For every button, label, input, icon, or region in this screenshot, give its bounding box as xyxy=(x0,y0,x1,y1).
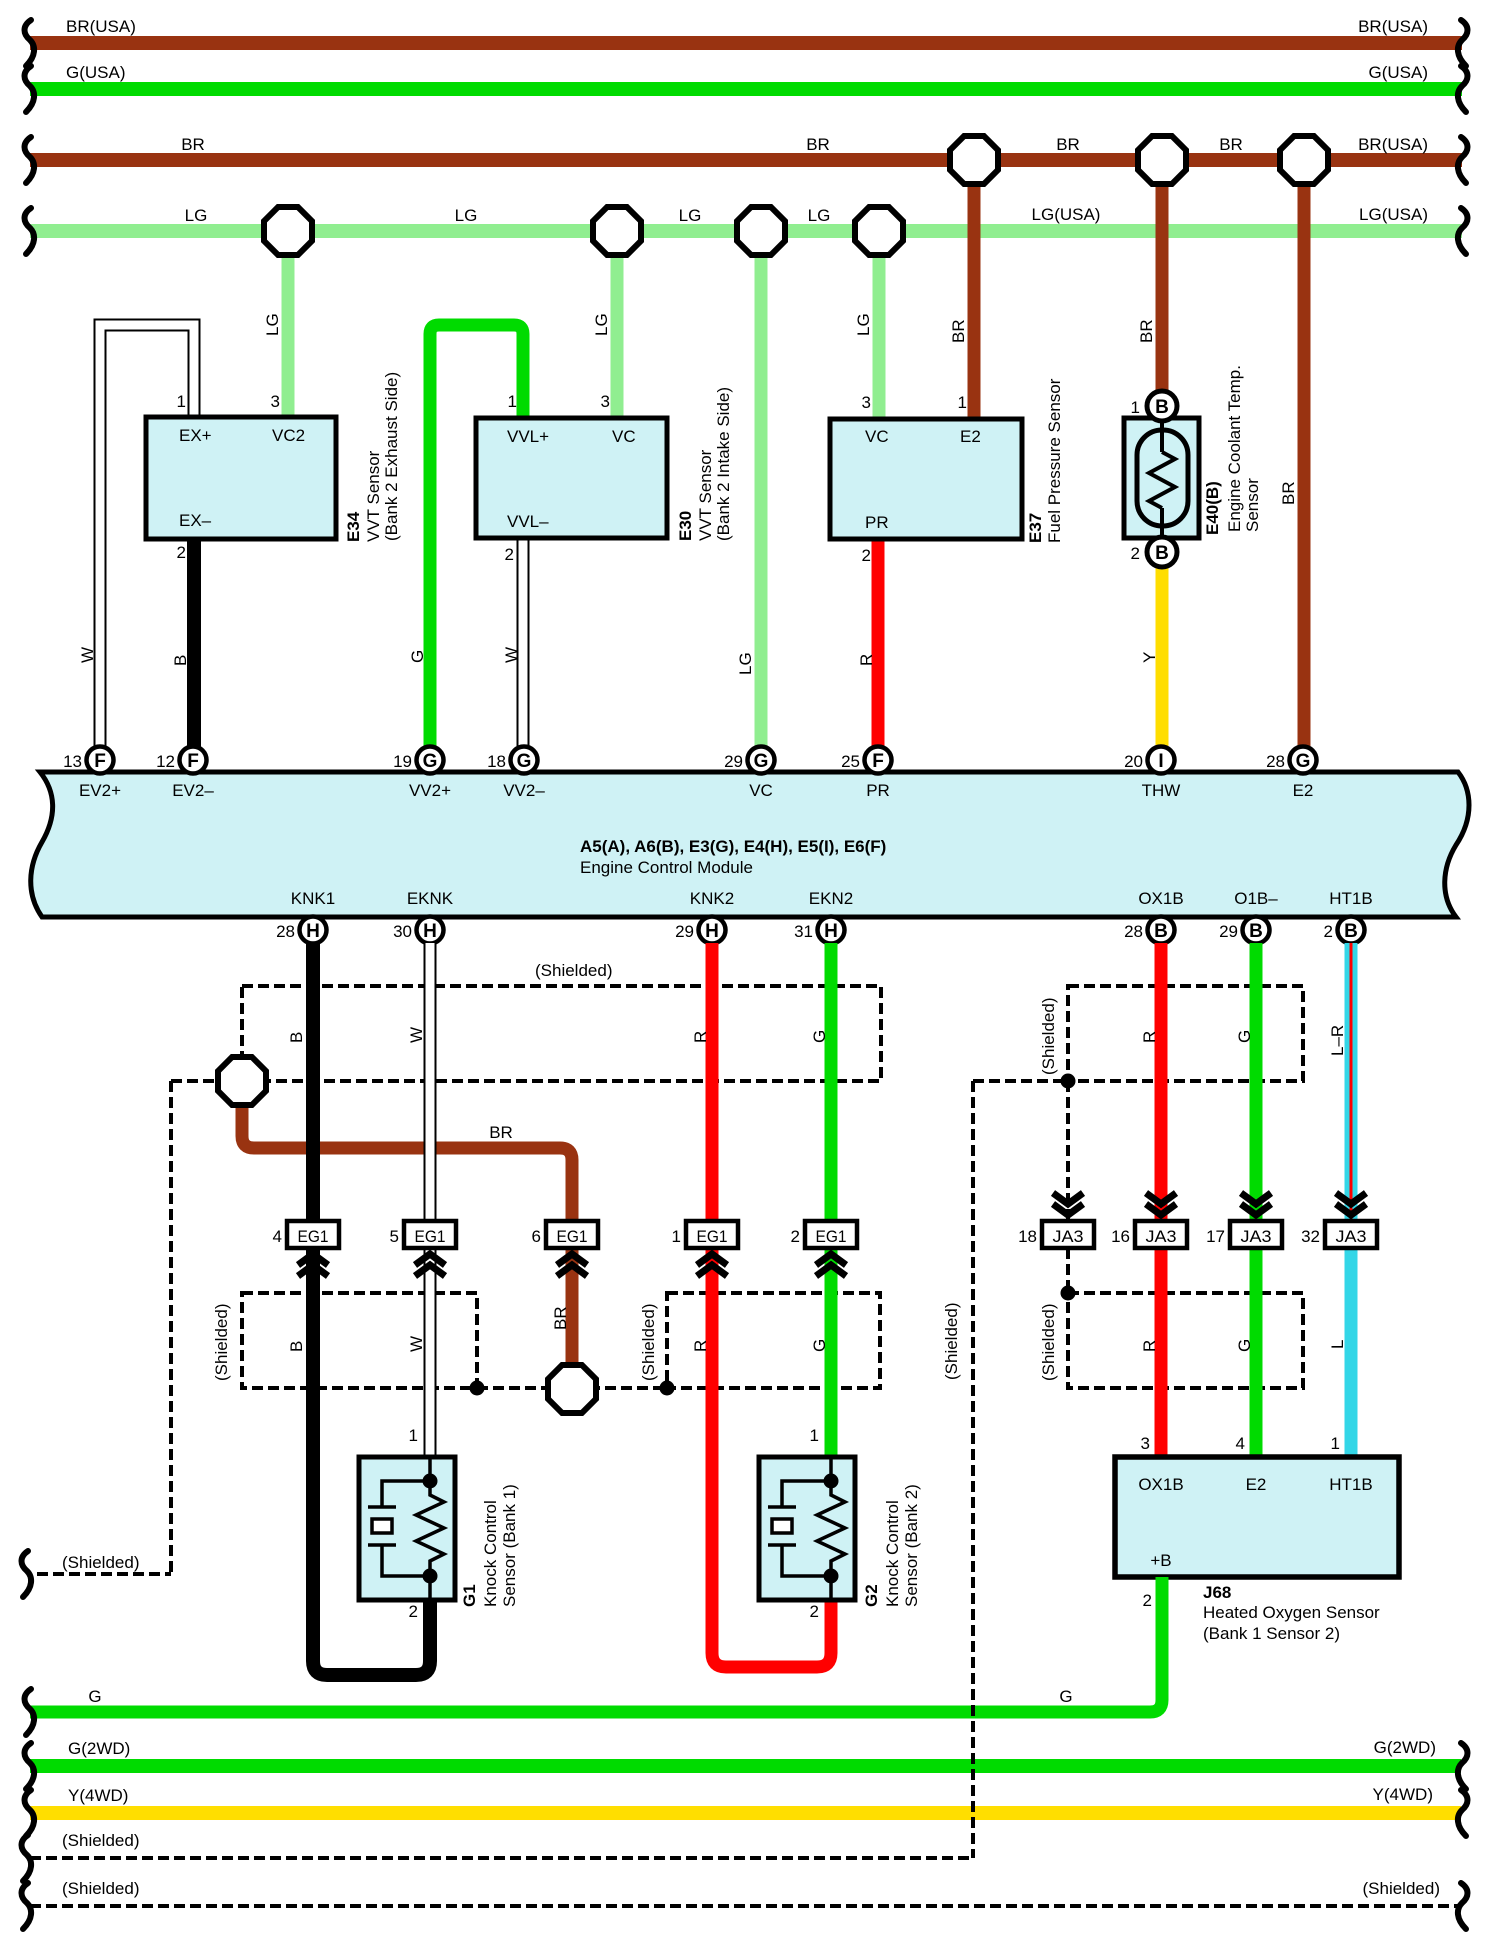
svg-text:Engine Control Module: Engine Control Module xyxy=(580,858,753,877)
chevron down 2 at JA3-18 xyxy=(1053,1204,1083,1215)
svg-text:H: H xyxy=(423,921,437,942)
svg-text:BR: BR xyxy=(181,135,205,154)
G1 internal lead bottom xyxy=(428,1576,432,1600)
svg-text:G1: G1 xyxy=(460,1584,479,1607)
wire B E34 EX- to ECM EV2- xyxy=(187,539,201,748)
svg-text:BR(USA): BR(USA) xyxy=(1358,17,1428,36)
svg-text:G(2WD): G(2WD) xyxy=(1374,1738,1436,1757)
svg-text:G: G xyxy=(810,1030,829,1043)
break symbol left at y=1858 xyxy=(22,1835,32,1881)
thermistor lead bottom E40(B) xyxy=(1160,508,1164,538)
connector EG1-5 box xyxy=(404,1221,456,1248)
svg-text:EX–: EX– xyxy=(179,511,212,530)
svg-text:30: 30 xyxy=(393,922,412,941)
svg-text:2: 2 xyxy=(409,1602,418,1621)
svg-text:VVL+: VVL+ xyxy=(507,427,549,446)
svg-text:Sensor (Bank 1): Sensor (Bank 1) xyxy=(500,1484,519,1607)
svg-text:2: 2 xyxy=(862,546,871,565)
svg-text:BR: BR xyxy=(806,135,830,154)
svg-text:1: 1 xyxy=(1331,1434,1340,1453)
wire Y E40B to ECM THW xyxy=(1156,566,1169,748)
chevron up 2 at EG1-5 xyxy=(415,1265,445,1276)
svg-text:LG: LG xyxy=(455,206,478,225)
wire W E30 VVL- (white core) xyxy=(519,539,528,748)
svg-text:3: 3 xyxy=(271,392,280,411)
component J68 Heated Oxygen Sensor box xyxy=(1115,1457,1399,1577)
wire R E37 PR to ECM PR xyxy=(872,539,885,748)
svg-text:1: 1 xyxy=(508,392,517,411)
svg-text:3: 3 xyxy=(1141,1434,1150,1453)
svg-text:Knock Control: Knock Control xyxy=(883,1500,902,1607)
svg-text:EG1: EG1 xyxy=(415,1227,446,1246)
svg-text:1: 1 xyxy=(177,392,186,411)
wire LG bus xyxy=(30,224,1462,238)
svg-text:W: W xyxy=(78,647,97,663)
svg-text:Sensor (Bank 2): Sensor (Bank 2) xyxy=(902,1484,921,1607)
svg-text:W: W xyxy=(407,1027,426,1043)
svg-text:(Shielded): (Shielded) xyxy=(942,1303,961,1381)
break symbol left at y=1906 xyxy=(22,1883,32,1929)
ECM bottom pin 28H KNK1 circle xyxy=(300,917,327,944)
svg-text:OX1B: OX1B xyxy=(1138,1475,1183,1494)
svg-text:18: 18 xyxy=(1018,1227,1037,1246)
svg-text:+B: +B xyxy=(1150,1551,1171,1570)
svg-text:Fuel Pressure Sensor: Fuel Pressure Sensor xyxy=(1045,378,1064,543)
svg-text:E34: E34 xyxy=(344,511,363,542)
svg-text:E2: E2 xyxy=(1293,781,1314,800)
svg-text:20: 20 xyxy=(1124,752,1143,771)
G1 piezo crystal square xyxy=(372,1519,392,1533)
wire G(2WD) bus xyxy=(30,1759,1461,1773)
ECM top pin 18G VV2&#8211; circle xyxy=(511,747,538,774)
octagon BR junction 1 xyxy=(950,136,998,184)
svg-text:G: G xyxy=(810,1339,829,1352)
component E30 VVT Sensor box xyxy=(476,418,667,538)
svg-text:PR: PR xyxy=(865,513,889,532)
G1 piezo plate bottom xyxy=(368,1543,396,1547)
chevron down 2 at JA3-17 xyxy=(1241,1204,1271,1215)
svg-text:THW: THW xyxy=(1142,781,1181,800)
wire LG drop to E34 VC2 xyxy=(282,231,295,417)
svg-text:E40(B): E40(B) xyxy=(1203,481,1222,535)
octagon BR junction 3 xyxy=(1280,136,1328,184)
svg-text:2: 2 xyxy=(505,545,514,564)
dashed shielded bus row1 xyxy=(30,1856,973,1860)
svg-text:G: G xyxy=(408,650,427,663)
svg-text:Heated Oxygen Sensor: Heated Oxygen Sensor xyxy=(1203,1603,1380,1622)
junction dot SB3 corner xyxy=(470,1381,485,1396)
shield box upper-left xyxy=(242,986,881,1081)
svg-text:EG1: EG1 xyxy=(697,1227,728,1246)
svg-text:J68: J68 xyxy=(1203,1583,1231,1602)
svg-text:2: 2 xyxy=(1131,544,1140,563)
svg-text:2: 2 xyxy=(810,1602,819,1621)
svg-text:G2: G2 xyxy=(862,1584,881,1607)
svg-text:JA3: JA3 xyxy=(1241,1227,1272,1246)
svg-text:29: 29 xyxy=(1219,922,1238,941)
ECM top pin 28G E2 circle xyxy=(1290,747,1317,774)
svg-text:3: 3 xyxy=(601,392,610,411)
component G2 Knock Control Sensor box xyxy=(759,1457,855,1600)
G2 internal node dot top xyxy=(824,1474,839,1489)
svg-text:LG(USA): LG(USA) xyxy=(1359,205,1428,224)
wire L JA3-32 to J68 HT1B xyxy=(1345,1248,1358,1457)
svg-text:PR: PR xyxy=(866,781,890,800)
svg-text:5: 5 xyxy=(390,1227,399,1246)
connector EG1-2 box xyxy=(805,1221,857,1248)
wire R OX1B to J68 xyxy=(1155,943,1168,1457)
svg-text:EX+: EX+ xyxy=(179,426,212,445)
G2 internal lead bottom xyxy=(829,1576,833,1600)
svg-text:B: B xyxy=(1155,543,1169,564)
svg-text:(Shielded): (Shielded) xyxy=(212,1304,231,1382)
G1 piezo plate top xyxy=(368,1505,396,1509)
ECM bottom pin 30H EKNK circle xyxy=(417,917,444,944)
dashed vertical left xyxy=(169,1081,173,1574)
svg-text:JA3: JA3 xyxy=(1336,1227,1367,1246)
svg-text:(Shielded): (Shielded) xyxy=(62,1831,140,1850)
thermistor stadium of E40(B) xyxy=(1137,430,1188,526)
break symbol left at y=1766 xyxy=(25,1743,35,1789)
svg-text:28: 28 xyxy=(1266,752,1285,771)
break symbol left at y=1712 xyxy=(25,1689,35,1735)
junction dot SB4 corner xyxy=(660,1381,675,1396)
svg-text:31: 31 xyxy=(794,922,813,941)
svg-text:EKN2: EKN2 xyxy=(809,889,853,908)
ECM top pin 19G VV2+ circle xyxy=(417,747,444,774)
octagon shield junction 2 xyxy=(548,1365,596,1413)
svg-text:LG: LG xyxy=(854,313,873,336)
svg-text:Y: Y xyxy=(1140,652,1159,663)
component G1 Knock Control Sensor box xyxy=(359,1457,455,1600)
svg-text:VVL–: VVL– xyxy=(507,512,549,531)
svg-text:W: W xyxy=(407,1336,426,1352)
svg-text:LG: LG xyxy=(736,652,755,675)
break symbol right at y=160 xyxy=(1458,137,1468,183)
svg-text:28: 28 xyxy=(276,922,295,941)
svg-text:25: 25 xyxy=(841,752,860,771)
svg-text:VC2: VC2 xyxy=(272,426,305,445)
svg-text:VC: VC xyxy=(865,427,889,446)
svg-text:1: 1 xyxy=(672,1227,681,1246)
connector EG1-6 box xyxy=(546,1221,598,1248)
svg-text:13: 13 xyxy=(63,752,82,771)
chevron up 2 at EG1-4 xyxy=(298,1265,328,1276)
ECM bottom pin 29H KNK2 circle xyxy=(699,917,726,944)
wire R KNK2 loop to G2 pin2 xyxy=(712,943,831,1667)
svg-text:R: R xyxy=(857,654,876,666)
svg-text:BR: BR xyxy=(949,319,968,343)
svg-text:1: 1 xyxy=(1131,398,1140,417)
svg-text:VVT Sensor: VVT Sensor xyxy=(364,450,383,542)
svg-text:E2: E2 xyxy=(1246,1475,1267,1494)
chevron down 1 at JA3-16 xyxy=(1146,1193,1176,1204)
svg-text:R: R xyxy=(1140,1340,1159,1352)
wire B KNK1 loop to G1 pin2 xyxy=(313,943,430,1675)
G1 internal node dot top xyxy=(423,1474,438,1489)
svg-text:3: 3 xyxy=(862,393,871,412)
svg-text:B: B xyxy=(287,1032,306,1043)
wire L-R HT1B red stripe xyxy=(1350,943,1353,1221)
svg-text:EG1: EG1 xyxy=(557,1227,588,1246)
svg-text:LG(USA): LG(USA) xyxy=(1032,205,1101,224)
chevron up 2 at EG1-6 xyxy=(557,1265,587,1276)
dashed shielded bus row2 xyxy=(30,1904,1460,1908)
svg-text:B: B xyxy=(1344,921,1358,942)
G1 internal node dot bottom xyxy=(423,1569,438,1584)
ECM bottom pin 29B O1B&#8211; circle xyxy=(1243,917,1270,944)
chevron down 1 at JA3-18 xyxy=(1053,1193,1083,1204)
break symbol left at y=1813 xyxy=(25,1790,35,1836)
svg-text:KNK2: KNK2 xyxy=(690,889,734,908)
chevron down 1 at JA3-32 xyxy=(1336,1193,1366,1204)
G2 internal resistor zigzag xyxy=(817,1481,845,1576)
svg-text:R: R xyxy=(691,1340,710,1352)
svg-text:(Bank 1 Sensor 2): (Bank 1 Sensor 2) xyxy=(1203,1624,1340,1643)
shield box lower-left xyxy=(242,1293,477,1388)
chevron down 2 at JA3-32 xyxy=(1336,1204,1366,1215)
svg-text:18: 18 xyxy=(487,752,506,771)
svg-text:R: R xyxy=(691,1031,710,1043)
wire W loop E34 (white core) xyxy=(100,325,194,748)
svg-text:2: 2 xyxy=(791,1227,800,1246)
svg-text:12: 12 xyxy=(156,752,175,771)
wire W EKNK to G1 pin1 (white core) xyxy=(426,943,435,1457)
svg-text:2: 2 xyxy=(1143,1591,1152,1610)
octagon LG junction 3 xyxy=(737,207,785,255)
thermistor lead top E40(B) xyxy=(1160,418,1164,452)
svg-text:(Bank 2 Intake Side): (Bank 2 Intake Side) xyxy=(714,387,733,541)
wire G EKN2 to G2 pin1 xyxy=(825,943,838,1457)
svg-text:G(2WD): G(2WD) xyxy=(68,1739,130,1758)
svg-text:BR(USA): BR(USA) xyxy=(66,17,136,36)
svg-text:29: 29 xyxy=(724,752,743,771)
svg-text:BR(USA): BR(USA) xyxy=(1358,135,1428,154)
svg-text:LG: LG xyxy=(592,313,611,336)
G2 piezo branch top xyxy=(782,1481,831,1507)
svg-text:1: 1 xyxy=(409,1426,418,1445)
wire Y(4WD) bus xyxy=(30,1806,1461,1820)
svg-text:H: H xyxy=(306,921,320,942)
chevron up 1 at EG1-5 xyxy=(415,1254,445,1265)
break symbol right at y=43 xyxy=(1458,20,1468,66)
ECM top pin 29G VC circle xyxy=(748,747,775,774)
component E40(B) box xyxy=(1124,418,1199,538)
ECM bottom pin 31H EKN2 circle xyxy=(818,917,845,944)
svg-text:G: G xyxy=(1059,1687,1072,1706)
wire BR shield drain to EG1-6 xyxy=(242,1107,572,1363)
chevron down 2 at JA3-16 xyxy=(1146,1204,1176,1215)
svg-text:EV2+: EV2+ xyxy=(79,781,121,800)
ECM bottom pin 2B HT1B circle xyxy=(1338,917,1365,944)
break symbol right at y=231 xyxy=(1458,208,1468,254)
svg-text:G(USA): G(USA) xyxy=(66,63,126,82)
svg-text:F: F xyxy=(94,751,106,772)
svg-text:BR: BR xyxy=(1219,135,1243,154)
G1 internal lead top xyxy=(428,1457,432,1481)
svg-text:VV2–: VV2– xyxy=(503,781,545,800)
junction dot SB2 corner xyxy=(1061,1074,1076,1089)
svg-text:H: H xyxy=(824,921,838,942)
connector EG1-1 box xyxy=(686,1221,738,1248)
chevron up 1 at EG1-6 xyxy=(557,1254,587,1265)
dashed stub from octagon1 to left xyxy=(171,1079,220,1083)
svg-text:I: I xyxy=(1158,751,1163,772)
svg-text:VC: VC xyxy=(612,427,636,446)
wire BR drop to E40B xyxy=(1156,160,1169,392)
svg-text:R: R xyxy=(1140,1031,1159,1043)
svg-text:O1B–: O1B– xyxy=(1234,889,1278,908)
G2 internal node dot bottom xyxy=(824,1569,839,1584)
svg-text:(Shielded): (Shielded) xyxy=(62,1553,140,1572)
chevron up 1 at EG1-1 xyxy=(697,1254,727,1265)
break symbol left at y=89 xyxy=(25,66,35,112)
wire L-R HT1B to JA3-32 (cyan) xyxy=(1345,943,1358,1221)
svg-text:OX1B: OX1B xyxy=(1138,889,1183,908)
octagon LG junction 2 xyxy=(593,207,641,255)
svg-text:EG1: EG1 xyxy=(816,1227,847,1246)
svg-text:H: H xyxy=(705,921,719,942)
svg-text:BR: BR xyxy=(489,1123,513,1142)
break symbol left at y=160 xyxy=(25,137,35,183)
wire BR bus xyxy=(30,153,1462,167)
svg-text:W: W xyxy=(502,647,521,663)
connector JA3-16 box xyxy=(1135,1221,1187,1248)
svg-text:G: G xyxy=(88,1687,101,1706)
octagon shield junction 1 xyxy=(218,1057,266,1105)
svg-text:G: G xyxy=(1296,751,1311,772)
wire LG drop to E30 VC xyxy=(611,231,624,418)
wire G O1B- to J68 E2 xyxy=(1250,943,1263,1457)
junction dot SB5 corner xyxy=(1061,1286,1076,1301)
svg-text:JA3: JA3 xyxy=(1146,1227,1177,1246)
connector JA3-17 box xyxy=(1230,1221,1282,1248)
shield box upper-right xyxy=(1068,986,1303,1081)
svg-text:1: 1 xyxy=(958,393,967,412)
svg-text:E37: E37 xyxy=(1026,513,1045,543)
svg-text:E30: E30 xyxy=(676,511,695,541)
svg-text:(Shielded): (Shielded) xyxy=(62,1879,140,1898)
svg-text:BR: BR xyxy=(1056,135,1080,154)
G2 piezo plate top xyxy=(768,1505,796,1509)
svg-text:(Shielded): (Shielded) xyxy=(639,1304,658,1382)
ECM top pin 13F EV2+ circle xyxy=(87,747,114,774)
G2 internal lead top xyxy=(829,1457,833,1481)
svg-text:A5(A), A6(B), E3(G), E4(H), E5: A5(A), A6(B), E3(G), E4(H), E5(I), E6(F) xyxy=(580,837,886,856)
svg-text:G(USA): G(USA) xyxy=(1369,63,1429,82)
svg-text:EV2–: EV2– xyxy=(172,781,214,800)
svg-text:L: L xyxy=(1328,1340,1347,1349)
svg-text:4: 4 xyxy=(273,1227,282,1246)
G1 piezo branch bottom xyxy=(382,1545,430,1576)
chevron down 1 at JA3-17 xyxy=(1241,1193,1271,1204)
wire BR drop to ECM E2 xyxy=(1298,160,1311,748)
svg-text:BR: BR xyxy=(551,1306,570,1330)
dashed link SB2 to vertical xyxy=(973,1079,1068,1083)
svg-text:17: 17 xyxy=(1206,1227,1225,1246)
wire LG drop to ECM VC xyxy=(755,231,768,748)
svg-text:L–R: L–R xyxy=(1328,1025,1347,1056)
wire W EKNK to G1 pin1 (outline) xyxy=(424,943,437,1457)
G2 piezo plate bottom xyxy=(768,1543,796,1547)
svg-text:B: B xyxy=(287,1341,306,1352)
G1 internal resistor zigzag xyxy=(416,1481,444,1576)
svg-text:1: 1 xyxy=(810,1426,819,1445)
connector JA3-32 box xyxy=(1325,1221,1377,1248)
svg-text:2: 2 xyxy=(177,543,186,562)
wire W loop E34 EX+ to ECM EV2+ (outline) xyxy=(100,325,194,748)
octagon LG junction 1 xyxy=(264,207,312,255)
octagon LG junction 4 xyxy=(855,207,903,255)
svg-text:Engine Coolant Temp.: Engine Coolant Temp. xyxy=(1225,365,1244,532)
connector circle B bottom of E40(B) xyxy=(1147,537,1177,567)
ECM top pin 12F EV2&#8211; circle xyxy=(180,747,207,774)
break symbol right at y=89 xyxy=(1458,66,1468,112)
connector EG1-4 box xyxy=(287,1221,339,1248)
thermistor zigzag E40(B) xyxy=(1149,452,1175,508)
wire G bus bottom with turn to J68 +B xyxy=(30,1577,1162,1712)
break symbol left at y=231 xyxy=(25,208,35,254)
svg-text:G: G xyxy=(517,751,532,772)
connector circle B top of E40(B) xyxy=(1147,391,1177,421)
svg-text:JA3: JA3 xyxy=(1053,1227,1084,1246)
dashed horizontal to left brace xyxy=(37,1572,171,1576)
break symbol left at y=1574 xyxy=(22,1551,32,1597)
G1 piezo branch top xyxy=(382,1481,430,1507)
wire LG drop to E37 VC xyxy=(873,231,886,419)
svg-text:6: 6 xyxy=(532,1227,541,1246)
ECM bottom pin 28B OX1B circle xyxy=(1148,917,1175,944)
svg-text:29: 29 xyxy=(675,922,694,941)
svg-text:B: B xyxy=(1155,397,1169,418)
shield box lower-mid xyxy=(667,1293,880,1388)
svg-text:B: B xyxy=(171,655,190,666)
svg-text:G: G xyxy=(1235,1030,1254,1043)
svg-text:G: G xyxy=(1235,1339,1254,1352)
chevron up 2 at EG1-2 xyxy=(816,1265,846,1276)
dashed JA3-18 drop upper xyxy=(1066,1081,1070,1221)
wire BR(USA) bus (top) xyxy=(30,36,1462,50)
dashed long vertical xyxy=(971,1081,975,1858)
svg-text:EKNK: EKNK xyxy=(407,889,454,908)
svg-text:32: 32 xyxy=(1301,1227,1320,1246)
svg-text:Y(4WD): Y(4WD) xyxy=(68,1786,128,1805)
svg-text:EG1: EG1 xyxy=(298,1227,329,1246)
svg-text:LG: LG xyxy=(808,206,831,225)
break symbol right at y=1906 xyxy=(1458,1883,1468,1929)
dashed line between lower shield boxes xyxy=(477,1386,667,1390)
ECM top pin 25F PR circle xyxy=(865,747,892,774)
break symbol right at y=1813 xyxy=(1458,1790,1468,1836)
svg-text:G: G xyxy=(423,751,438,772)
component Engine Control Module band xyxy=(31,772,1469,917)
svg-text:VC: VC xyxy=(749,781,773,800)
svg-text:(Shielded): (Shielded) xyxy=(1363,1879,1441,1898)
break symbol right at y=1766 xyxy=(1458,1743,1468,1789)
octagon BR junction 2 xyxy=(1138,136,1186,184)
svg-text:KNK1: KNK1 xyxy=(291,889,335,908)
svg-text:(Shielded): (Shielded) xyxy=(1039,1304,1058,1382)
chevron up 1 at EG1-2 xyxy=(816,1254,846,1265)
component E37 Fuel Pressure Sensor box xyxy=(830,419,1022,539)
svg-text:F: F xyxy=(872,751,884,772)
svg-text:LG: LG xyxy=(185,206,208,225)
svg-text:2: 2 xyxy=(1324,922,1333,941)
G2 piezo crystal square xyxy=(772,1519,792,1533)
svg-text:B: B xyxy=(1249,921,1263,942)
wire G loop E30 VVL+ to ECM VV2+ xyxy=(430,325,523,748)
svg-text:(Shielded): (Shielded) xyxy=(535,961,613,980)
